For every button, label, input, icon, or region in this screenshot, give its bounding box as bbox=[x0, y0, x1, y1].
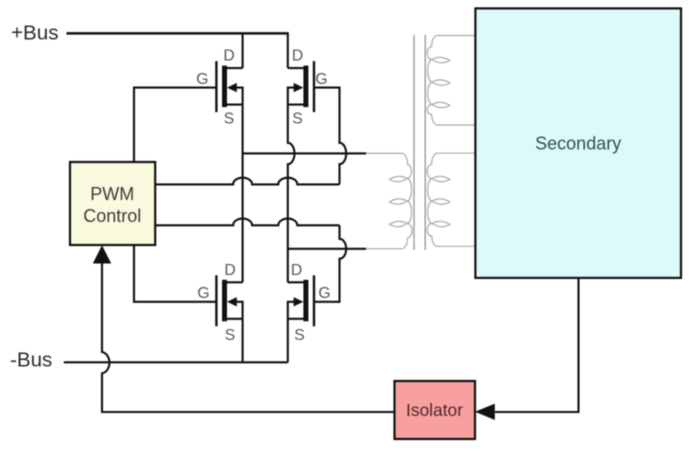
svg-text:G: G bbox=[197, 285, 209, 302]
wire: +Bus rail bbox=[67, 32, 288, 35]
svg-text:D: D bbox=[292, 48, 303, 65]
svg-text:+Bus: +Bus bbox=[11, 22, 59, 45]
wire: Q4 source to -Bus bbox=[287, 319, 289, 363]
wire: PWM drive to Q4 gate (hops up over both bridge legs) bbox=[155, 219, 339, 226]
svg-text:S: S bbox=[225, 327, 235, 344]
transistor Q4 (bottom-right N-MOSFET, mirrored) bbox=[288, 275, 314, 326]
wire: left bridge leg (Q1 source to Q3 drain) bbox=[242, 105, 244, 283]
transformer T1 secondary winding (top) bbox=[427, 36, 475, 126]
node A wire: left leg midpoint to transformer primary bbox=[243, 152, 366, 154]
wire: PWM drive to Q2 gate (hops up over both bridge legs) bbox=[155, 178, 339, 185]
transistor Q1 (top-left N-MOSFET) bbox=[216, 61, 242, 112]
wire: right bridge leg, Q2 source down to node B (hops right over node A wire) bbox=[288, 105, 295, 283]
svg-text:-Bus: -Bus bbox=[10, 349, 52, 372]
wire: PWM output to Q3 gate bbox=[134, 245, 216, 302]
transistor Q3 (bottom-left N-MOSFET) bbox=[216, 275, 242, 326]
svg-text:S: S bbox=[292, 111, 302, 128]
wire: Q3 source to -Bus bbox=[242, 319, 244, 363]
svg-text:D: D bbox=[291, 262, 302, 279]
transformer T1 primary winding bbox=[366, 153, 412, 248]
svg-text:S: S bbox=[294, 327, 304, 344]
svg-text:D: D bbox=[223, 48, 234, 65]
svg-text:S: S bbox=[224, 111, 234, 128]
svg-text:Isolator: Isolator bbox=[406, 400, 463, 420]
svg-text:G: G bbox=[318, 285, 330, 302]
wire: Q2 drain to +Bus bbox=[287, 32, 289, 68]
wire: Q4 gate drive vertical (hops right over node B wire) bbox=[314, 225, 346, 301]
wire: Q1 drain to +Bus bbox=[242, 33, 244, 68]
transformer T1 secondary winding (bottom) bbox=[427, 153, 475, 246]
Secondary block bbox=[475, 8, 681, 278]
svg-text:G: G bbox=[196, 71, 208, 88]
Isolator block bbox=[395, 381, 476, 439]
svg-text:PWM: PWM bbox=[90, 184, 134, 204]
svg-text:D: D bbox=[224, 262, 235, 279]
svg-text:Secondary: Secondary bbox=[535, 134, 621, 154]
transformer T1 core bbox=[414, 35, 425, 250]
transistor Q2 (top-right N-MOSFET, mirrored) bbox=[288, 61, 314, 112]
wire: Isolator output feedback to PWM (hops right over -Bus rail) bbox=[102, 262, 395, 413]
svg-text:G: G bbox=[315, 71, 327, 88]
svg-text:Control: Control bbox=[83, 206, 141, 226]
arrowhead into PWM Control bbox=[93, 245, 111, 263]
PWM Control block bbox=[70, 162, 155, 245]
node B wire: right leg midpoint to transformer primary bbox=[288, 248, 366, 250]
wire: Q2 gate lead down to drive line (hops right over node A wire) bbox=[314, 88, 346, 185]
arrowhead into Isolator bbox=[475, 404, 495, 420]
wire: Secondary output to Isolator bbox=[495, 278, 579, 412]
wire: PWM output to Q1 gate bbox=[134, 88, 216, 162]
wire: -Bus rail bbox=[64, 361, 288, 363]
